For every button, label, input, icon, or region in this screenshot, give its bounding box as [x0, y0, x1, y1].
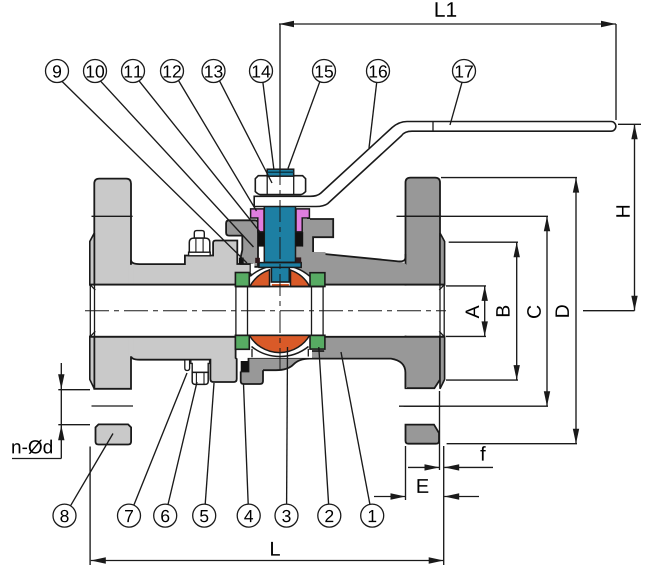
- callout 3: [275, 504, 298, 527]
- joint stud top: [189, 231, 211, 256]
- raised face lines across bore right: [439, 285, 441, 337]
- callout 13: [202, 60, 225, 83]
- seat ring bottom right: [310, 335, 325, 349]
- ball top segment: [250, 270, 270, 287]
- right body: block left of stem: [226, 220, 258, 266]
- bore chamfer marks: [90, 285, 444, 337]
- dimension H: [583, 124, 641, 310]
- dimension D: [441, 178, 579, 444]
- dimension A: [446, 286, 488, 337]
- stem: [264, 206, 295, 262]
- leader 16: [369, 82, 377, 148]
- leader 13: [220, 81, 273, 183]
- callout 4: [237, 504, 260, 527]
- seat ring top left: [235, 273, 249, 287]
- callout 11: [122, 60, 145, 83]
- dimension C: [397, 216, 551, 406]
- vertical centerline: [279, 163, 281, 370]
- right flange raised face: [440, 233, 445, 389]
- leader 2: [319, 347, 329, 504]
- dimension B: [446, 242, 520, 380]
- handle flat: [254, 122, 616, 207]
- cavity wall lines: [252, 349, 308, 357]
- leader 7: [134, 373, 187, 505]
- left flange raised face: [90, 233, 95, 389]
- leader 3: [286, 347, 289, 504]
- packing left: [258, 232, 264, 247]
- leader 17: [450, 82, 462, 125]
- horizontal centerline: [85, 310, 446, 312]
- stem washer: [267, 169, 294, 176]
- handle grip tick: [432, 122, 434, 132]
- leader 8: [71, 434, 114, 506]
- bore top line: [90, 284, 445, 286]
- raised face lines across bore left: [89, 285, 91, 337]
- dimension f: [408, 391, 493, 471]
- right body hub upper: [302, 252, 407, 286]
- right body neck: [302, 219, 333, 253]
- leader 6: [168, 382, 197, 505]
- bore white cut: [89, 286, 446, 336]
- left body flange plate: [94, 179, 131, 445]
- dimension n-Od: [12, 363, 90, 459]
- callout 5: [193, 504, 216, 527]
- body joint seal top: [239, 258, 244, 264]
- callout 9: [46, 60, 69, 83]
- ball bottom segment: [249, 335, 309, 352]
- callout 17: [453, 60, 476, 83]
- leader 12: [179, 81, 257, 212]
- callout 7: [118, 504, 141, 527]
- right flange bolt hole lines: [404, 215, 442, 217]
- packing right: [296, 232, 304, 247]
- callout 1: [361, 504, 384, 527]
- seat face lines across bore: [236, 287, 323, 335]
- stem tang: [271, 262, 289, 282]
- ball bore inner lines: [235, 286, 324, 288]
- callout 2: [318, 504, 341, 527]
- callout 10: [84, 60, 107, 83]
- gland left: [251, 209, 264, 232]
- bore bottom line: [90, 336, 445, 338]
- dimension E: [374, 446, 479, 500]
- leader 5: [205, 383, 214, 504]
- callout 8: [53, 504, 76, 527]
- collar side seals: [255, 258, 260, 263]
- stem collar: [259, 263, 301, 268]
- leader 1: [341, 352, 370, 504]
- callout 12: [161, 60, 184, 83]
- hub-plate continuity cover: [129, 265, 133, 357]
- right body flange plate: [406, 178, 441, 444]
- leader 15: [288, 82, 320, 169]
- body joint seal bottom: [241, 361, 249, 372]
- callout 6: [154, 504, 177, 527]
- dimension L: [90, 446, 444, 565]
- leader 11: [139, 81, 260, 232]
- seat ring bottom left: [235, 335, 249, 349]
- callout 15: [313, 60, 336, 83]
- ball: [234, 265, 325, 356]
- leader 4: [244, 384, 249, 504]
- left body hub and neck: [131, 241, 251, 383]
- ball cavity white gaps: [251, 264, 255, 273]
- dimension L1: [279, 2, 616, 169]
- left flange bolt hole lines: [92, 215, 133, 217]
- gland right: [296, 209, 309, 232]
- leader 10: [101, 81, 254, 247]
- joint stud bottom: [185, 360, 210, 385]
- leader 14: [263, 82, 274, 168]
- stem nut: [255, 176, 305, 195]
- callout 14: [250, 60, 273, 83]
- seat ring top right: [310, 273, 325, 287]
- right body: region right of stem below notch: [296, 219, 311, 273]
- right body lower hub: [241, 337, 407, 388]
- callout 16: [367, 60, 390, 83]
- leader 9: [62, 81, 247, 263]
